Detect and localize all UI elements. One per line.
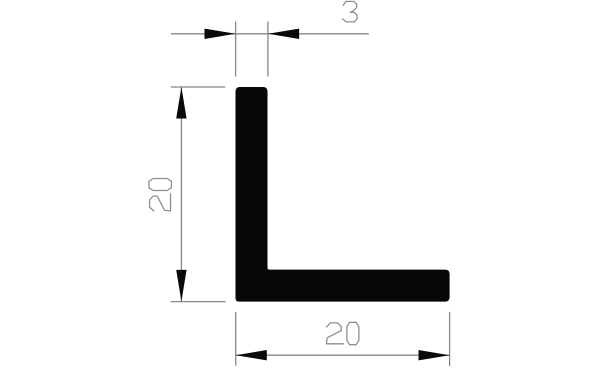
dimension text 20 (bottom) — [327, 322, 359, 344]
arrowhead left-top — [176, 87, 186, 119]
extension line top-right — [267, 22, 269, 77]
dimension line bottom (20) — [236, 354, 450, 356]
extension line bottom-left — [235, 312, 237, 366]
arrowhead bottom-right — [419, 350, 450, 360]
dimension text 3 — [343, 1, 358, 22]
extension line bottom-right — [449, 312, 451, 366]
extension line left-bottom — [171, 301, 226, 303]
dimension line top (3) — [171, 33, 369, 35]
dimension line left (20) — [180, 87, 182, 302]
arrowhead top-left — [205, 29, 236, 39]
extension line top-left — [235, 22, 237, 77]
arrowhead top-right — [268, 29, 299, 39]
L-profile body — [236, 87, 450, 302]
extension line left-top — [171, 86, 225, 88]
arrowhead left-bottom — [176, 270, 186, 302]
dimension text 20 (rotated) — [149, 179, 171, 211]
arrowhead bottom-left — [236, 350, 267, 360]
